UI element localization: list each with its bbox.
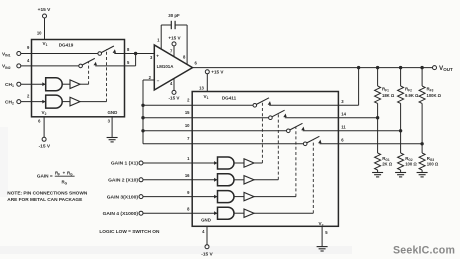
wire feedback net to DG411 switch input pin 10 <box>143 130 286 132</box>
svg-text:GND: GND <box>201 218 211 223</box>
wire junction to resistor RG3 <box>421 144 423 153</box>
DG411 pin 4 wire to -15V <box>206 226 208 244</box>
svg-text:6: 6 <box>38 118 41 123</box>
wire output to resistor RF3 <box>421 68 423 86</box>
buffer D2 in DG411 <box>234 179 244 181</box>
resistor RF1 18K Ω <box>375 86 381 103</box>
node A junction <box>134 52 137 55</box>
buffer D3 in DG411 <box>234 196 244 198</box>
DG419 V2 pin 6 wire to -15V <box>43 117 45 138</box>
svg-text:-15 V: -15 V <box>169 96 181 101</box>
svg-text:V1: V1 <box>43 41 48 47</box>
svg-text:100K Ω: 100K Ω <box>427 93 442 98</box>
resistor RF3 100K Ω <box>419 86 425 103</box>
wire op-amp output to VOUT <box>193 67 433 69</box>
svg-text:-15 V: -15 V <box>201 251 213 257</box>
ground symbol for RG2 <box>395 172 406 174</box>
wire feedback net to DG411 switch input pin 15 <box>143 117 269 119</box>
gain input terminal GAIN 2 <box>139 178 143 182</box>
svg-text:RF2: RF2 <box>405 87 412 93</box>
output terminal VOUT <box>433 66 437 70</box>
resistor RF2 9.9K Ω <box>398 86 404 103</box>
wire RG3 to ground <box>421 170 423 173</box>
analog switch S2 in DG419 <box>79 64 83 68</box>
wire switch S2 output (pin 5) <box>95 65 135 67</box>
svg-text:−: − <box>157 78 160 83</box>
svg-text:GAIN 2 (X10): GAIN 2 (X10) <box>108 178 138 184</box>
control line (dashed) B2 to switch S1 <box>106 49 108 101</box>
wire op-amp pin 4 to -15V <box>173 79 175 91</box>
buffer B2 in DG419 <box>62 101 70 103</box>
svg-text:4: 4 <box>202 229 205 234</box>
wire VIN1 to switch S1 <box>21 53 98 55</box>
wire output to resistor RF1 <box>377 68 379 86</box>
wire switch SW1 output to pin 3 <box>269 104 338 106</box>
op-amp U2 LM101A <box>154 45 192 90</box>
svg-text:VIN2: VIN2 <box>2 64 11 70</box>
ground symbol for DG411 pin 5 <box>317 246 328 248</box>
svg-text:2K Ω: 2K Ω <box>382 162 393 167</box>
wire pin 3 to output node <box>338 104 358 106</box>
svg-text:CH1: CH1 <box>5 82 14 88</box>
svg-text:4: 4 <box>170 81 173 86</box>
control line (dashed) D2 to switch SW2 <box>277 114 279 180</box>
+15V supply terminal for DG411 pin 13 <box>205 70 209 74</box>
svg-text:10: 10 <box>37 31 42 36</box>
svg-text:GAIN 4 (X1000): GAIN 4 (X1000) <box>103 211 139 217</box>
driver gate A1 in DG419 <box>46 78 63 91</box>
analog switch S1 in DG419 <box>98 52 102 56</box>
wire RG2 to ground <box>400 170 402 173</box>
svg-text:13: 13 <box>199 85 204 90</box>
wire GAIN 1 to gate G1 <box>143 162 218 164</box>
junction RF3/RG3 <box>420 142 423 145</box>
svg-text:14: 14 <box>341 111 346 116</box>
svg-text:5: 5 <box>325 230 328 235</box>
svg-text:18K Ω: 18K Ω <box>382 93 395 98</box>
svg-text:1: 1 <box>157 37 160 42</box>
svg-text:DG411: DG411 <box>222 96 237 101</box>
analog switch SW1 in DG411 <box>253 104 257 108</box>
wire feedback net to DG411 switch input pin 2 <box>143 104 253 106</box>
feedback junction row 2 <box>141 104 144 107</box>
wire RF1 to junction <box>377 103 379 117</box>
logic gate G1 in DG411 <box>218 157 235 169</box>
buffer D4 in DG411 <box>234 212 244 214</box>
svg-text:2: 2 <box>27 94 30 99</box>
junction RF2/RG2 <box>399 129 402 132</box>
svg-text:100 Ω: 100 Ω <box>405 162 417 167</box>
gain input terminal GAIN 3 <box>139 195 143 199</box>
svg-text:GAIN 1 (X1): GAIN 1 (X1) <box>111 161 139 167</box>
ground symbol for RG1 <box>372 172 383 174</box>
svg-text:11: 11 <box>341 124 346 129</box>
junction RF1/RG1 <box>376 116 379 119</box>
wire pin 11 to RF2/RG2 node <box>338 130 400 132</box>
svg-text:-15 V: -15 V <box>39 144 51 150</box>
analog switch SW4 in DG411 <box>303 142 307 146</box>
wire switch S1 output to node A (pin 8) <box>114 53 135 55</box>
control line (dashed) B1 to switch S2 <box>88 62 90 85</box>
svg-text:RG: RG <box>62 179 68 185</box>
wire buffer B1 output <box>80 83 89 85</box>
wire VIN2 to switch S2 <box>21 65 79 67</box>
logic gate G2 in DG411 <box>218 174 235 186</box>
wire cap to op-amp pin 8 <box>186 25 188 65</box>
input terminal VIN2 <box>17 64 21 68</box>
svg-text:6: 6 <box>195 61 198 66</box>
svg-text:7: 7 <box>187 136 190 141</box>
feedback junction row 15 <box>141 116 144 119</box>
junction output line / RF3 <box>420 66 423 69</box>
control line (dashed) D3 to switch SW3 <box>295 127 297 196</box>
svg-text:5: 5 <box>127 60 130 65</box>
junction output line / RF2 <box>399 66 402 69</box>
buffer B1 in DG419 <box>62 83 70 85</box>
svg-text:30 pF: 30 pF <box>168 13 180 18</box>
wire pin 14 to RF1/RG1 node <box>338 117 377 119</box>
-15V supply terminal for DG419 <box>42 137 46 141</box>
svg-text:LM101A: LM101A <box>157 64 175 69</box>
svg-text:ARE FOR METAL CAN PACKAGE: ARE FOR METAL CAN PACKAGE <box>7 197 82 203</box>
svg-text:RG: RG <box>67 170 73 176</box>
svg-text:VOUT: VOUT <box>439 65 453 72</box>
wire RG1 to ground <box>377 170 379 173</box>
svg-text:+: + <box>63 170 66 175</box>
wire switch SW2 output to pin 14 <box>285 117 339 119</box>
svg-text:1: 1 <box>187 156 190 161</box>
junction pin3 riser on output line <box>357 66 360 69</box>
resistor RG2 100 Ω <box>398 153 404 170</box>
svg-text:10: 10 <box>185 123 190 128</box>
svg-text:9: 9 <box>27 45 30 50</box>
svg-text:3: 3 <box>150 55 153 60</box>
wire node A to op-amp noninverting input <box>136 53 155 55</box>
svg-text:100 Ω: 100 Ω <box>427 162 439 167</box>
svg-text:2: 2 <box>187 97 190 102</box>
+15V supply terminal for op-amp pin 7 <box>172 42 176 46</box>
svg-text:NOTE: PIN CONNECTIONS SHOWN: NOTE: PIN CONNECTIONS SHOWN <box>7 191 88 197</box>
wire CH1 to gate A1 <box>21 83 46 85</box>
svg-text:4: 4 <box>27 58 30 63</box>
wire switch SW3 output to pin 11 <box>303 130 339 132</box>
analog switch SW2 in DG411 <box>269 116 273 120</box>
svg-text:8: 8 <box>127 47 130 52</box>
wire RF3 to junction <box>421 103 423 143</box>
svg-text:9.9K Ω: 9.9K Ω <box>405 93 419 98</box>
svg-text:9: 9 <box>187 190 190 195</box>
svg-text:15: 15 <box>185 110 190 115</box>
svg-text:GAIN 3(X100): GAIN 3(X100) <box>107 194 139 200</box>
wire +15V to pin 7 <box>173 46 175 57</box>
logic gate G4 in DG411 <box>218 207 235 219</box>
gain input terminal GAIN 1 <box>139 161 143 165</box>
wire cap to op-amp pin 1 <box>160 25 162 49</box>
analog switch SW3 in DG411 <box>287 129 291 133</box>
gain input terminal GAIN 4 <box>139 211 143 215</box>
wire GAIN 4 to gate G4 <box>143 212 218 214</box>
wire junction to resistor RG1 <box>377 118 379 153</box>
wire +15V to DG411 V1 pin 13 <box>206 74 208 92</box>
svg-text:VIN1: VIN1 <box>2 51 11 57</box>
input terminal VIN1 <box>17 52 21 56</box>
svg-text:LOGIC LOW = SWITCH ON: LOGIC LOW = SWITCH ON <box>99 229 160 235</box>
wire GAIN 3 to gate G3 <box>143 196 218 198</box>
svg-text:SeekIC.com: SeekIC.com <box>393 245 455 257</box>
driver gate A2 in DG419 <box>46 95 63 108</box>
svg-text:RF1: RF1 <box>382 87 389 93</box>
svg-text:GND: GND <box>108 110 118 115</box>
DG419 GND pin 3 wire <box>111 117 113 138</box>
wire pin 6 to RF3/RG3 node <box>338 143 422 145</box>
wire GAIN 2 to gate G2 <box>143 179 218 181</box>
wire buffer D1 output <box>254 162 262 164</box>
logic gate G3 in DG411 <box>218 191 235 203</box>
svg-text:GAIN =: GAIN = <box>37 174 53 179</box>
IC U1 DG419 package outline <box>32 40 125 117</box>
control terminal CH2 <box>17 100 21 104</box>
IC U3 DG411 package outline <box>192 92 338 227</box>
svg-text:16: 16 <box>185 173 190 178</box>
svg-text:+15 V: +15 V <box>38 7 51 13</box>
svg-text:+: + <box>156 53 159 58</box>
+15V supply terminal for DG419 <box>43 14 47 18</box>
svg-text:V1: V1 <box>204 94 209 100</box>
wire buffer D2 output <box>254 179 278 181</box>
resistor RG3 100 Ω <box>419 153 425 170</box>
svg-text:+15 V: +15 V <box>211 70 224 75</box>
wire switch SW4 output to pin 6 <box>320 143 339 145</box>
resistor RG1 2K Ω <box>375 153 381 170</box>
wire feedback net to DG411 switch input pin 7 <box>143 143 303 145</box>
svg-text:7: 7 <box>170 48 173 53</box>
svg-text:2: 2 <box>149 75 152 80</box>
-15V supply terminal for DG411 pin 4 <box>205 245 209 249</box>
buffer D1 in DG411 <box>234 162 244 164</box>
svg-text:6: 6 <box>341 137 344 142</box>
svg-text:8: 8 <box>187 206 190 211</box>
ground symbol for RG3 <box>417 172 428 174</box>
wire buffer B2 output <box>80 101 107 103</box>
wire RF2 to junction <box>400 103 402 130</box>
control line (dashed) D4 to switch SW4 <box>312 140 314 213</box>
wire output to resistor RF2 <box>400 68 402 86</box>
ground symbol for DG419 pin 3 <box>107 137 118 139</box>
svg-text:RF: RF <box>55 170 60 176</box>
DG411 pin 5 wire to ground <box>321 226 323 246</box>
svg-text:8: 8 <box>183 54 186 59</box>
wire junction to resistor RG2 <box>400 131 402 153</box>
svg-text:DG419: DG419 <box>59 43 74 48</box>
wire op-amp inverting input feedback <box>143 79 154 81</box>
wire buffer D3 output <box>254 196 296 198</box>
svg-text:V2: V2 <box>42 110 47 116</box>
svg-text:3: 3 <box>108 118 111 123</box>
feedback junction row 10 <box>141 129 144 132</box>
wire buffer D4 output <box>254 212 313 214</box>
svg-text:3: 3 <box>341 99 344 104</box>
control line (dashed) D1 to switch SW1 <box>261 102 263 163</box>
wire CH2 to gate A2 <box>21 101 46 103</box>
wire joining pins 8 and 5 <box>135 54 137 66</box>
control terminal CH1 <box>17 82 21 86</box>
svg-text:RF3: RF3 <box>427 87 434 93</box>
junction output line / RF1 <box>376 66 379 69</box>
-15V supply terminal for op-amp pin 4 <box>172 90 176 94</box>
wire +15V to DG419 V1 pin 10 <box>44 18 46 40</box>
svg-text:CH2: CH2 <box>5 99 14 105</box>
svg-text:+15 V: +15 V <box>168 36 181 41</box>
